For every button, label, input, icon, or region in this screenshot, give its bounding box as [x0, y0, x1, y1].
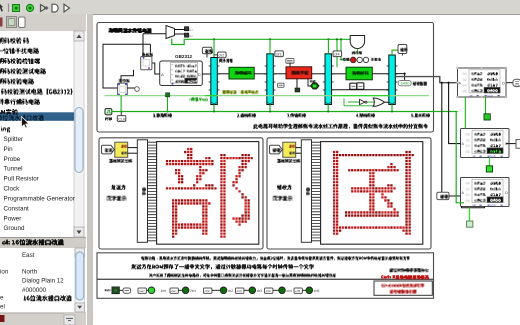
svg-text:#000000: #000000 [22, 287, 47, 294]
label 时钟 [105, 117, 112, 121]
svg-text:Pin: Pin [4, 146, 14, 153]
wire green to bar3 top [327, 39, 329, 54]
wire tunnel to converter [114, 149, 116, 151]
svg-text:Constant: Constant [4, 206, 29, 213]
wire green to bar2 top [269, 39, 271, 54]
led 1err [148, 287, 155, 294]
wire green to bar4 top [392, 50, 398, 55]
svg-text:E2: E2 [190, 34, 194, 38]
toolbar icons [0, 4, 3, 12]
tunnel clr3 [275, 51, 284, 57]
label 两位错 [352, 51, 362, 54]
wire bar bottom to clock bus [391, 105, 393, 112]
label Ctrl+K note [381, 275, 429, 279]
input pin clr3 [236, 288, 244, 293]
error injector box 随机干扰 [286, 67, 312, 79]
label 一位错 [339, 58, 349, 61]
wire ram3 bottom U [462, 207, 485, 208]
wire data out (gray bus) [395, 77, 457, 83]
led indicator 3 [467, 221, 473, 227]
ram RAM2 selected cell [487, 148, 503, 153]
wire ram1 D out [506, 82, 513, 84]
probe button 2 [357, 83, 364, 90]
label pipeline note [253, 124, 428, 129]
tunnel clr4 [333, 51, 342, 57]
counter U3 取指器 [141, 57, 152, 70]
svg-text:b49b: b49b [401, 82, 411, 87]
encoder box 海明编码 [229, 67, 254, 79]
wire clock bus right drop [456, 112, 464, 203]
output pin E2 [185, 33, 189, 37]
or gate U8 [373, 98, 384, 106]
label description line1 [141, 256, 410, 260]
attribute header [0, 237, 86, 249]
rom U5 GB2312 [160, 61, 203, 86]
label 同步清零 [219, 59, 233, 63]
label 2.编码阶段 [237, 113, 256, 117]
pin on status line [166, 93, 170, 97]
svg-text:Pull Resistor: Pull Resistor [4, 176, 39, 183]
label 接收数据 [413, 82, 427, 86]
wire green control bus [172, 39, 351, 45]
wire below error box [296, 79, 298, 88]
led matrix left (部) [157, 142, 259, 245]
svg-text:ld clr: ld clr [491, 154, 497, 158]
tunnel 接收 [270, 145, 283, 154]
wire bar1 to encoder [217, 73, 229, 75]
svg-text:sel: sel [473, 203, 477, 207]
wire down to fetch counter [142, 34, 144, 57]
description box upper [97, 253, 434, 279]
svg-text:2err: 2err [190, 289, 197, 293]
svg-text:04: 04 [466, 145, 470, 149]
label description line3 [149, 273, 336, 277]
svg-text:CLK: CLK [118, 117, 126, 121]
tree panel [0, 31, 86, 237]
partial component at right edge 2 [516, 140, 520, 149]
constant 03A [278, 83, 285, 87]
led indicator 1 [484, 114, 490, 120]
label EDUCODER [382, 284, 425, 288]
wire ram2 D out [506, 143, 516, 145]
converter box 国标转区位码 (yellow) [115, 142, 128, 157]
tunnel CLK [120, 112, 122, 116]
svg-text:A: A [161, 72, 164, 77]
partial component at right edge 1 [513, 79, 520, 86]
svg-text:ld clr: ld clr [491, 203, 497, 207]
svg-text:04: 04 [463, 85, 467, 89]
wire encoder to bar2 [254, 73, 267, 75]
wire not to or [367, 101, 374, 103]
svg-text:Clock: Clock [4, 186, 21, 193]
wire feedback loop C shape [103, 44, 150, 88]
mux U2 [166, 26, 175, 39]
input pin 1err [138, 288, 146, 293]
svg-text:en5: en5 [314, 289, 320, 293]
input pin en5 [294, 288, 302, 293]
converter box 国标转区位码 (yellow) [283, 142, 296, 157]
wire 1err to led [146, 289, 148, 291]
probe cls [123, 288, 131, 293]
wire mux to pin E1 [175, 29, 185, 31]
wire drop to decoder [336, 39, 338, 67]
led clr2 [220, 287, 227, 294]
label 3.传输阶段 [287, 113, 306, 117]
selected tree row highlight [0, 112, 74, 121]
wire drop to error led [341, 39, 350, 60]
led en5 [306, 287, 313, 294]
wire clr2 to led [212, 289, 220, 291]
stage register R4 [389, 55, 396, 105]
input pin clr2 [204, 288, 212, 293]
led matrix right (国) [321, 142, 423, 245]
wire under buttons [332, 89, 389, 91]
wire green to bar1 top [213, 39, 215, 57]
wire pin to probe [119, 289, 123, 291]
svg-text:02: 02 [463, 79, 467, 83]
svg-text:Ground: Ground [4, 225, 26, 232]
input pin 2err [170, 288, 178, 293]
wire error box to bar3 [312, 73, 325, 75]
svg-text:sel: sel [470, 93, 474, 97]
wire clr4 to led [273, 289, 279, 291]
input pin 干扰 hex [310, 80, 316, 83]
led clr3 [249, 287, 256, 294]
led clr4 [279, 287, 286, 294]
led 一位错 (on, red) [350, 57, 356, 63]
svg-text:clr2: clr2 [219, 53, 225, 57]
splitter comb right 字模 [301, 140, 311, 243]
mouse cursor [22, 117, 29, 129]
sender display area outer box [99, 138, 263, 249]
wire en5 to led [302, 289, 306, 291]
tunnel 取指 [202, 47, 212, 54]
and gate U6 [350, 36, 364, 49]
svg-text:ld clr: ld clr [488, 93, 494, 97]
wire register to probe circle [127, 87, 134, 89]
description box lower [97, 279, 434, 298]
wire main clock bus [112, 111, 458, 113]
wire decoder to bar4 [372, 73, 389, 75]
label 建议时钟频率 [390, 268, 429, 272]
svg-text:00: 00 [463, 73, 467, 77]
label 寄存器 [119, 79, 130, 83]
label 1.取指阶段 [153, 113, 172, 117]
tunnel 接收 [437, 192, 449, 199]
tunnel 缓存 [398, 45, 407, 54]
svg-text:Splitter: Splitter [4, 136, 24, 143]
svg-text:02: 02 [466, 139, 470, 143]
wires converter to splitter [296, 147, 306, 149]
svg-text:2err: 2err [171, 289, 177, 293]
svg-text:clr4: clr4 [287, 289, 292, 293]
led indicator 2 [486, 166, 492, 172]
wire to not gate [348, 101, 360, 103]
stage register R1 [211, 58, 218, 105]
left explorer toolbar [0, 14, 86, 31]
label EDU [105, 289, 111, 291]
wire tunnel to ram3 A [449, 195, 461, 197]
wire and output down [356, 49, 358, 54]
wire counter to register [121, 70, 134, 83]
bottom mini scrollbar [64, 315, 75, 325]
wire register drop [120, 96, 122, 112]
wire probe drop [167, 96, 169, 112]
wire to ram2 A [449, 83, 461, 144]
ram RAM3 [461, 178, 510, 207]
wire mux to pin E2 [175, 33, 185, 35]
explorer toolbar icons [0, 18, 3, 27]
svg-text:e: e [0, 295, 4, 302]
svg-text:Probe: Probe [4, 156, 21, 163]
tunnel 发送 [102, 145, 115, 154]
toolbar green circle button [26, 4, 33, 11]
ground symbol [295, 88, 300, 92]
svg-text:D: D [505, 191, 508, 195]
register U4 寄存器 [118, 83, 128, 96]
ram RAM3 selected cell [487, 197, 503, 202]
stage register R2 [267, 54, 274, 105]
wire mux input horizontal [143, 33, 166, 35]
tunnel stem [206, 54, 208, 58]
wire clr3 to led [244, 289, 249, 291]
wire ram2 green stub + led [489, 158, 491, 166]
splitter comb left 字模 [137, 140, 147, 243]
decoder box 海明解码 [346, 67, 372, 80]
educoder box [374, 281, 432, 295]
main canvas white background [92, 14, 520, 325]
svg-text:1err: 1err [161, 289, 168, 293]
wire ram1 green stub b + led [485, 97, 487, 114]
label 4.解码阶段 [356, 113, 375, 117]
svg-text:E1: E1 [190, 28, 194, 32]
wire rom D to reg bar 1 [202, 73, 211, 75]
wire tunnel to converter [282, 149, 284, 151]
wire 数据状态 status line [105, 95, 430, 97]
wires converter to splitter [128, 147, 138, 149]
svg-text:Power: Power [4, 215, 22, 222]
toolbar D icon 1 [52, 4, 58, 12]
label 接收方 [277, 185, 292, 190]
input pin EDU [112, 287, 119, 294]
svg-text:D: D [502, 82, 505, 86]
wire to tunnel 接收 [441, 83, 443, 193]
clock CLK1 时钟 [105, 109, 112, 115]
tunnel clr2 [218, 52, 227, 58]
svg-text:00: 00 [466, 134, 470, 138]
probe circle [135, 87, 140, 92]
svg-text:GB2312: GB2312 [175, 54, 193, 59]
led 无错误 (off) [363, 57, 368, 62]
wire ram1 green stub a [464, 97, 466, 129]
svg-text:Dialog Plain 12: Dialog Plain 12 [22, 278, 64, 285]
rom selected cell [185, 78, 197, 83]
tree scrollbar [74, 31, 84, 237]
svg-text:06: 06 [466, 151, 470, 155]
label =假值/0xa1 [189, 97, 208, 101]
svg-text:Tunnel: Tunnel [4, 166, 23, 173]
output pin E1 [185, 27, 189, 31]
svg-text:ion: ion [0, 268, 9, 275]
svg-text:clr2: clr2 [228, 289, 233, 293]
wire bar2 to error box [273, 73, 286, 75]
wire bar3 to decoder [332, 73, 347, 75]
pipeline circuit outer frame box [97, 23, 434, 133]
wire bar bottom to clock bus [327, 105, 329, 112]
svg-text:clr4: clr4 [334, 52, 340, 56]
label description line2 [131, 264, 314, 269]
svg-text:00: 00 [466, 183, 470, 187]
svg-text:clr2: clr2 [205, 289, 210, 293]
label 取指器 [142, 53, 153, 57]
attribute panel [0, 248, 86, 312]
led 两位错 (off) [357, 57, 362, 62]
wire 2err to led [178, 289, 182, 291]
probe above error box [286, 59, 294, 64]
ram RAM1 display buffer selected cell [484, 88, 500, 93]
wire ram3 green stub + led [469, 208, 471, 221]
svg-text:Programmable Generator: Programmable Generator [4, 196, 75, 203]
bottom strip [0, 312, 86, 325]
svg-text:06: 06 [466, 200, 470, 204]
toolbar step icon [41, 5, 47, 12]
wire or output to bar4 [385, 101, 389, 103]
led 2err [182, 287, 189, 294]
svg-text:06: 06 [463, 90, 467, 94]
svg-text:el: el [0, 303, 5, 310]
title label 海明码流水传输电路 [109, 28, 152, 33]
label 5.显示阶段 [411, 113, 430, 117]
svg-text:clr3: clr3 [276, 52, 282, 56]
svg-text:clr4: clr4 [266, 289, 271, 293]
svg-text:D: D [198, 72, 201, 77]
splitter column [86, 14, 93, 325]
svg-text:clr3: clr3 [257, 289, 262, 293]
svg-text:02: 02 [466, 188, 470, 192]
attr scrollbar [75, 248, 85, 312]
wire bar bottom to clock bus [213, 105, 215, 112]
wire loop right stub [149, 44, 151, 52]
toolbar green square button [13, 5, 20, 12]
label 无错误 [371, 58, 381, 61]
wire bar bottom to clock bus [269, 105, 271, 112]
ram RAM2 [461, 129, 510, 158]
svg-text:1err: 1err [139, 289, 145, 293]
svg-text:North: North [22, 268, 38, 275]
not gate U7 [360, 100, 366, 105]
wire bar4 to probe [395, 74, 404, 81]
toolbar D icon 2 [64, 4, 70, 12]
svg-text:04: 04 [466, 194, 470, 198]
probe button 1 [350, 83, 357, 89]
top toolbar [0, 0, 520, 15]
input pin clr4 [265, 288, 273, 293]
label 数据状态：高电平标志 [223, 90, 259, 94]
stage register R3 [325, 54, 332, 105]
svg-text:sel: sel [473, 154, 477, 158]
svg-text:East: East [22, 252, 35, 259]
svg-text:en5: en5 [295, 289, 300, 293]
svg-text:clr3: clr3 [237, 289, 242, 293]
receiver display area outer box [267, 138, 431, 249]
ram RAM1 display buffer [458, 68, 507, 97]
probe b49b [398, 81, 411, 86]
label 发送方 [111, 185, 126, 190]
wire counter to ROM address [152, 63, 160, 74]
wire green feed or [344, 105, 373, 107]
